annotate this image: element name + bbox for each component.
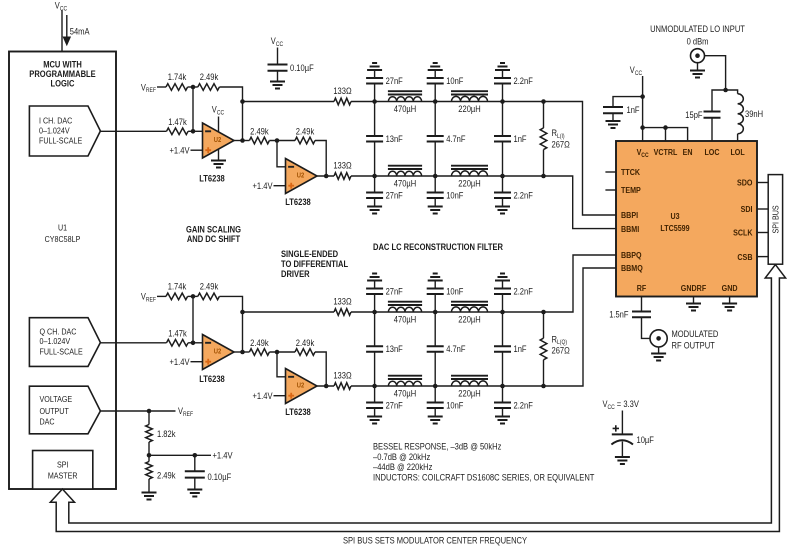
resistor 2.49k second stage feedback (Q) (295, 349, 315, 356)
U3 designator text (660, 211, 689, 233)
svg-text:AND DC SHIFT: AND DC SHIFT (187, 234, 241, 244)
resistor 2.49k second stage feedback (I) (295, 137, 315, 144)
svg-text:MCU WITH: MCU WITH (43, 60, 82, 70)
Q DAC text (40, 326, 83, 356)
ground GNDRF pin (693, 297, 695, 304)
U3 pin labels left column (621, 167, 643, 273)
wire VCC to cap (277, 48, 279, 65)
caption GAIN SCALING AND DC SHIFT (186, 225, 241, 245)
svg-text:REF: REF (183, 411, 193, 418)
svg-text:CC: CC (641, 153, 649, 159)
capacitor 27nF shunt M (Q) (374, 386, 376, 403)
pin stub SCLK (757, 232, 768, 234)
U3 pin labels right column (733, 178, 753, 262)
svg-text:SPI: SPI (57, 459, 69, 469)
svg-text:1.47k: 1.47k (168, 329, 187, 339)
svg-text:PROGRAMMABLE: PROGRAMMABLE (29, 69, 95, 79)
svg-text:1.82k: 1.82k (157, 429, 176, 439)
inductor 220uH P (Q) (452, 307, 488, 312)
svg-text:LT6238: LT6238 (199, 374, 225, 384)
svg-text:LOC: LOC (704, 147, 719, 157)
pin stub SDO (757, 182, 768, 184)
resistor 133ohm P rail (Q) (334, 309, 351, 316)
wire +1.4V node (149, 454, 211, 456)
svg-text:+1.4V: +1.4V (170, 146, 190, 156)
resistor 2.49k feedback (Q) (198, 293, 220, 300)
capacitor 2.2nF shunt M (I) (502, 176, 504, 193)
wire to 15pF (712, 90, 726, 112)
wire VCC to 10uF (621, 411, 623, 435)
inductor 220uH M (Q) (452, 381, 488, 386)
inductor 220uH P (I) (452, 96, 488, 101)
svg-text:133Ω: 133Ω (333, 161, 352, 171)
svg-text:13nF: 13nF (386, 134, 404, 144)
svg-text:LOGIC: LOGIC (51, 79, 75, 89)
resistor 1.47k (I) (167, 128, 189, 135)
wire VCC to MCU (61, 11, 63, 52)
svg-text:DAC LC RECONSTRUCTION FILTER: DAC LC RECONSTRUCTION FILTER (373, 242, 503, 252)
capacitor 0.10uF bypass (268, 65, 288, 71)
wire VREF to R 1.74k (157, 295, 166, 297)
ground GND pin (729, 297, 731, 304)
wire M rail (351, 385, 544, 387)
capacitor 10uF electrolytic (612, 433, 633, 435)
wire to 1nF cap (613, 97, 643, 107)
SPI BUS block (768, 175, 782, 265)
caption SINGLE-ENDED TO DIFFERENTIAL DRIVER (281, 249, 349, 279)
resistor 1.74k (I) (166, 84, 188, 91)
svg-text:GND: GND (722, 283, 738, 293)
svg-text:BBMQ: BBMQ (621, 263, 643, 273)
wire DAC to 1.47k (100, 130, 166, 132)
svg-text:TTCK: TTCK (621, 167, 641, 177)
svg-text:SDO: SDO (737, 178, 753, 188)
LO connector ground stub (697, 63, 699, 71)
capacitor 1.5nF (632, 312, 651, 318)
wire M rail (351, 175, 544, 177)
wire BBMQ route (544, 268, 617, 386)
modulator U3 LTC5599 block (616, 141, 757, 297)
wire to VREF label (149, 410, 176, 412)
svg-text:LTC5599: LTC5599 (660, 223, 689, 233)
svg-text:+1.4V: +1.4V (170, 357, 190, 367)
junction dot stage2 node (275, 350, 280, 355)
svg-text:U1: U1 (58, 223, 67, 233)
op-amp ground (211, 161, 226, 168)
svg-text:220µH: 220µH (458, 389, 480, 399)
wire +1.4V to op-amp2 (274, 185, 286, 187)
capacitor 15pF (704, 112, 721, 118)
wire op-amp1 output (234, 140, 249, 142)
wire VCC-VCTRL-EN tie (643, 128, 688, 141)
junction dots filter node (372, 99, 377, 104)
svg-text:2.49k: 2.49k (296, 126, 315, 136)
svg-text:CC: CC (217, 109, 225, 116)
ground 10uF (615, 457, 630, 464)
svg-text:+1.4V: +1.4V (213, 451, 233, 461)
wire LO to tank (705, 56, 726, 90)
svg-text:220µH: 220µH (458, 104, 480, 114)
svg-text:10nF: 10nF (446, 287, 464, 297)
capacitor 1nF differential (Q) (502, 312, 504, 346)
junction dot op-amp2 output (324, 174, 329, 179)
svg-text:MASTER: MASTER (48, 470, 78, 480)
svg-text:BBPI: BBPI (621, 210, 638, 220)
wire VREF to R 1.74k (157, 86, 166, 88)
resistor 133ohm M rail (I) (334, 173, 351, 180)
wire 1.74k to 2.49k (188, 295, 198, 297)
ground 2.49k (142, 493, 157, 500)
svg-text:4.7nF: 4.7nF (446, 134, 466, 144)
I DAC text (39, 116, 82, 146)
svg-text:1nF: 1nF (514, 344, 527, 354)
junction dots filter node (500, 310, 505, 315)
SPI MASTER sub-block (33, 451, 93, 490)
svg-text:DRIVER: DRIVER (281, 269, 310, 279)
svg-text:1.74k: 1.74k (168, 72, 187, 82)
pin stub LOC (711, 118, 713, 141)
wire op-amp1 output (234, 351, 249, 353)
resistor 1.74k (Q) (166, 293, 188, 300)
wire node A down to inverting input (192, 296, 194, 342)
junction dot inverting input (191, 341, 196, 346)
resistor 1.82k (148, 411, 150, 425)
svg-text:CSB: CSB (737, 252, 752, 262)
svg-text:EN: EN (683, 147, 693, 157)
svg-text:Q CH. DAC: Q CH. DAC (40, 326, 77, 336)
plus polarity mark (613, 425, 619, 431)
svg-text:1nF: 1nF (514, 134, 527, 144)
svg-text:470µH: 470µH (394, 179, 416, 189)
svg-text:INDUCTORS: COILCRAFT DS1608C S: INDUCTORS: COILCRAFT DS1608C SERIES, OR … (373, 472, 595, 482)
svg-text:10nF: 10nF (446, 401, 464, 411)
svg-text:LOL: LOL (730, 147, 744, 157)
svg-text:39nH: 39nH (745, 109, 763, 119)
wire feedback to output node (219, 87, 242, 141)
MCU U1 block outline (9, 52, 116, 490)
capacitor 2.2nF shunt M (Q) (502, 386, 504, 403)
svg-text:27nF: 27nF (386, 191, 404, 201)
wire cap to ground (277, 71, 279, 82)
junction dots filter node (500, 99, 505, 104)
Q channel DAC symbol (29, 318, 100, 367)
junction dot op-amp2 output (324, 384, 329, 389)
svg-text:220µH: 220µH (458, 179, 480, 189)
pin stub TEMP (605, 189, 616, 191)
inductor 470uH P (Q) (388, 307, 421, 312)
caption MODULATED RF OUTPUT (672, 329, 719, 351)
RF output coax connector (650, 330, 667, 347)
wire 1.47k to op-amp (188, 342, 202, 344)
junction dots RL (541, 99, 546, 104)
svg-text:267Ω: 267Ω (552, 139, 571, 149)
junction dot 0.10uF tap (193, 453, 198, 458)
svg-text:MODULATED: MODULATED (672, 329, 719, 339)
svg-text:10nF: 10nF (446, 76, 464, 86)
caption UNMODULATED LO INPUT (650, 24, 745, 46)
wire +1.4V to noninverting input (191, 361, 203, 363)
U3 pin labels bottom row (637, 283, 738, 293)
wire 1.5nF to RF connector (642, 317, 651, 338)
svg-text:VOLTAGE: VOLTAGE (40, 394, 73, 404)
resistor 133ohm P rail (I) (334, 98, 351, 105)
wire to stage2 feedback resistor (269, 140, 295, 142)
junction dot stage2 node (275, 138, 280, 143)
svg-text:2.2nF: 2.2nF (514, 191, 534, 201)
pin stub SDI (757, 208, 768, 210)
svg-text:GAIN SCALING: GAIN SCALING (186, 225, 241, 235)
ground 1nF (606, 121, 621, 128)
svg-text:470µH: 470µH (394, 389, 416, 399)
wire BBPI route (544, 102, 617, 216)
junction dot inverting input (191, 129, 196, 134)
svg-text:LT6238: LT6238 (285, 197, 311, 207)
wire feedback to op-amp2 output (315, 352, 326, 386)
svg-text:220µH: 220µH (458, 315, 480, 325)
capacitor 4.7nF differential (Q) (434, 312, 436, 346)
svg-text:2.2nF: 2.2nF (514, 401, 534, 411)
junction dot P rail start (240, 310, 245, 315)
junction dot tie at VCTRL (663, 125, 668, 130)
svg-text:SPI BUS: SPI BUS (770, 205, 780, 233)
svg-text:1.5nF: 1.5nF (609, 310, 629, 320)
SPI feedback hollow arrow loop (50, 265, 785, 532)
svg-text:27nF: 27nF (386, 76, 404, 86)
capacitor 27nF shunt P (Q) (374, 294, 376, 312)
svg-text:I CH. DAC: I CH. DAC (39, 116, 72, 126)
svg-text:470µH: 470µH (394, 315, 416, 325)
capacitor 1nF differential (I) (502, 102, 504, 137)
I channel DAC symbol (29, 106, 100, 156)
wire 10uF to ground (621, 442, 623, 458)
op-amp VCC stub (218, 117, 220, 133)
inductor 470uH M (I) (388, 171, 421, 176)
ground bypass cap (270, 82, 285, 89)
capacitor 10nF shunt M (Q) (434, 386, 436, 403)
capacitor 0.10uF bias (194, 455, 196, 471)
capacitor 27nF shunt M (I) (374, 176, 376, 193)
wire feedback to op-amp2 output (315, 141, 326, 177)
svg-text:2.49k: 2.49k (250, 338, 269, 348)
load resistor RL(I) 267ohm (543, 102, 545, 128)
svg-text:SCLK: SCLK (733, 228, 753, 238)
svg-text:UNMODULATED LO INPUT: UNMODULATED LO INPUT (650, 24, 745, 34)
svg-text:SDI: SDI (741, 204, 753, 214)
wire VCC into U3 (642, 76, 644, 141)
wire to stage2 feedback resistor (269, 351, 295, 353)
wire +1.4V to noninverting input (191, 149, 203, 151)
wire 1nF to ground (612, 113, 614, 121)
wire P rail (243, 311, 335, 313)
svg-text:+1.4V: +1.4V (253, 181, 273, 191)
op-amp U2 first stage (I) (203, 123, 235, 158)
inductor 39nH (738, 94, 744, 134)
capacitor 2.2nF shunt P (Q) (502, 294, 504, 312)
svg-text:0 dBm: 0 dBm (687, 37, 709, 47)
svg-text:FULL-SCALE: FULL-SCALE (39, 135, 82, 145)
capacitor 1nF (603, 107, 623, 113)
resistor 2.49k second stage input (Q) (249, 349, 269, 356)
svg-text:133Ω: 133Ω (333, 86, 352, 96)
svg-text:133Ω: 133Ω (333, 371, 352, 381)
svg-text:2.49k: 2.49k (250, 126, 269, 136)
op-amp ground stub (218, 150, 220, 161)
resistor 2.49k second stage input (I) (249, 137, 269, 144)
ground 0.10uF bias (187, 490, 202, 497)
svg-text:470µH: 470µH (394, 104, 416, 114)
wire feedback to output node (219, 296, 242, 352)
junction dots filter node (433, 310, 438, 315)
svg-text:15pF: 15pF (685, 110, 703, 120)
junction dot +1.4V node (147, 453, 152, 458)
wire voltage DAC to VREF node (100, 410, 149, 412)
capacitor 10nF shunt P (I) (434, 84, 436, 102)
wire BBMI route (544, 176, 617, 229)
wire RF pin to 1.5nF (641, 297, 643, 312)
svg-text:2.49k: 2.49k (157, 470, 176, 480)
svg-text:CC: CC (635, 70, 643, 77)
wire DAC to 1.47k (100, 342, 166, 344)
MCU title text (29, 60, 95, 89)
wire P rail (243, 101, 335, 103)
current arrow 54mA (64, 15, 70, 45)
junction dots filter node (372, 310, 377, 315)
svg-text:27nF: 27nF (386, 401, 404, 411)
svg-text:FULL-SCALE: FULL-SCALE (40, 347, 83, 357)
svg-text:TO DIFFERENTIAL: TO DIFFERENTIAL (281, 259, 349, 269)
svg-text:2.49k: 2.49k (200, 72, 219, 82)
wire node A down to inverting input (192, 87, 194, 131)
svg-text:267Ω: 267Ω (552, 346, 571, 356)
U3 pin labels top row (637, 147, 745, 159)
junction dots RL (541, 310, 546, 315)
svg-text:SPI BUS SETS MODULATOR CENTER: SPI BUS SETS MODULATOR CENTER FREQUENCY (343, 535, 527, 545)
svg-text:133Ω: 133Ω (333, 297, 352, 307)
junction dot LO node (723, 88, 728, 93)
svg-text:RF: RF (637, 283, 647, 293)
inductor 220uH M (I) (452, 171, 488, 176)
svg-text:BESSEL RESPONSE, –3dB @ 50kHz: BESSEL RESPONSE, –3dB @ 50kHz (373, 442, 502, 452)
inductor 470uH M (Q) (388, 381, 421, 386)
wire op-amp2 output to M rail (317, 175, 334, 177)
svg-text:U2: U2 (297, 380, 305, 389)
junction dot VREF node (147, 409, 152, 414)
svg-text:0.10µF: 0.10µF (290, 63, 314, 73)
svg-text:+1.4V: +1.4V (253, 391, 273, 401)
pin stub CSB (757, 256, 768, 258)
pin stub LOL (737, 134, 739, 141)
svg-text:2.2nF: 2.2nF (514, 76, 534, 86)
junction dot tie at VCC (640, 125, 645, 130)
junction dot P rail start (240, 99, 245, 104)
node A junction dot (191, 294, 196, 299)
svg-text:OUTPUT: OUTPUT (40, 406, 70, 416)
svg-text:U2: U2 (214, 135, 222, 144)
capacitor 10nF shunt P (Q) (434, 294, 436, 312)
svg-text:13nF: 13nF (386, 344, 404, 354)
svg-text:LT6238: LT6238 (285, 407, 311, 417)
svg-text:BBPQ: BBPQ (621, 250, 642, 260)
svg-text:GNDRF: GNDRF (681, 283, 706, 293)
svg-text:10µF: 10µF (637, 435, 655, 445)
svg-text:TEMP: TEMP (621, 185, 641, 195)
wire +1.4V to op-amp2 (274, 395, 286, 397)
op-amp U2 first stage (Q) (203, 335, 235, 370)
capacitor 13nF differential (I) (374, 102, 376, 137)
node A junction dot (191, 85, 196, 90)
svg-text:2.2nF: 2.2nF (514, 287, 534, 297)
svg-text:0.10µF: 0.10µF (208, 472, 232, 482)
ground LO connector (690, 71, 705, 78)
svg-text:–0.7dB @ 20kHz: –0.7dB @ 20kHz (373, 452, 431, 462)
svg-text:BBMI: BBMI (621, 224, 639, 234)
capacitor 4.7nF differential (I) (434, 102, 436, 137)
svg-text:U2: U2 (297, 170, 305, 179)
svg-text:10nF: 10nF (446, 191, 464, 201)
filter notes text (373, 442, 595, 483)
svg-text:54mA: 54mA (70, 26, 90, 36)
RF connector ground stub (658, 347, 660, 354)
junction dot output to P rail riser (240, 138, 245, 143)
junction dot VCC-1nF (640, 94, 645, 99)
capacitor 10nF shunt M (I) (434, 176, 436, 193)
svg-text:U2: U2 (214, 346, 222, 355)
wire stage2 node down to op-amp2 inverting input (277, 141, 286, 167)
svg-text:RF OUTPUT: RF OUTPUT (672, 341, 716, 351)
svg-text:REF: REF (146, 297, 156, 304)
U1 CY8C58LP label (45, 223, 81, 244)
svg-text:27nF: 27nF (386, 287, 404, 297)
svg-text:0–1.024V: 0–1.024V (40, 336, 71, 346)
svg-text:CC: CC (276, 41, 284, 48)
svg-text:1nF: 1nF (627, 105, 640, 115)
op-amp U2 second stage (I) (286, 159, 318, 194)
svg-text:–44dB @ 220kHz: –44dB @ 220kHz (373, 462, 433, 472)
resistor 1.47k (Q) (167, 340, 189, 347)
wire 1.47k to op-amp (188, 130, 202, 132)
svg-text:1.74k: 1.74k (168, 282, 187, 292)
svg-text:LT6238: LT6238 (199, 174, 225, 184)
resistor 2.49k to ground (148, 455, 150, 461)
svg-text:VCTRL: VCTRL (654, 147, 678, 157)
wire stage2 node down to op-amp2 inverting input (277, 352, 286, 377)
resistor 133ohm M rail (Q) (334, 383, 351, 390)
svg-text:CC: CC (60, 5, 68, 12)
ground RF connector (651, 354, 666, 361)
resistor 2.49k feedback (I) (198, 84, 220, 91)
wire to 39nH (726, 90, 738, 94)
svg-text:2.49k: 2.49k (296, 338, 315, 348)
wire BBPQ route (544, 255, 617, 312)
svg-text:4.7nF: 4.7nF (446, 344, 466, 354)
svg-text:U3: U3 (670, 211, 679, 221)
svg-text:REF: REF (146, 87, 156, 94)
junction dot output to P rail riser (240, 350, 245, 355)
svg-text:CC: CC (608, 404, 616, 411)
pin stub TTCK (605, 171, 616, 173)
wire 1.74k to 2.49k (188, 86, 198, 88)
voltage output DAC symbol (29, 386, 100, 434)
svg-text:CY8C58LP: CY8C58LP (45, 234, 81, 244)
capacitor 2.2nF shunt P (I) (502, 84, 504, 102)
svg-text:= 3.3V: = 3.3V (617, 399, 639, 409)
load resistor RL(Q) 267ohm (543, 312, 545, 338)
inductor 470uH P (I) (388, 97, 421, 102)
svg-text:1.47k: 1.47k (168, 117, 187, 127)
capacitor 27nF shunt P (I) (374, 84, 376, 102)
LO coax connector (691, 49, 705, 63)
junction dots filter node (433, 99, 438, 104)
